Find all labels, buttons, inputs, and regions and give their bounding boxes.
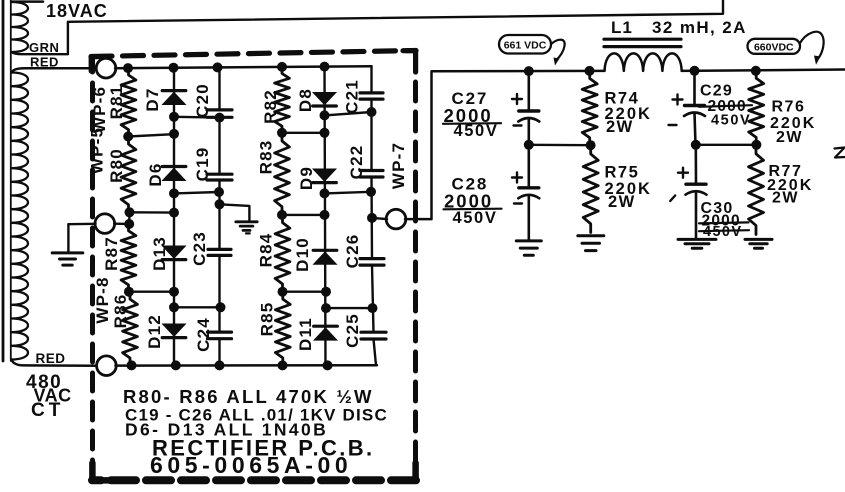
svg-text:GRN: GRN — [29, 40, 59, 55]
svg-text:D8: D8 — [296, 88, 315, 112]
svg-text:C25: C25 — [343, 313, 362, 348]
svg-text:C29: C29 — [700, 83, 733, 100]
svg-text:D6: D6 — [146, 162, 165, 186]
svg-text:2W: 2W — [608, 193, 636, 211]
svg-text:2W: 2W — [776, 129, 803, 146]
svg-text:L1: L1 — [611, 18, 633, 37]
svg-text:WP-7: WP-7 — [389, 142, 408, 189]
svg-text:450V: 450V — [711, 113, 751, 129]
svg-text:R80: R80 — [107, 148, 126, 183]
svg-text:RED: RED — [36, 351, 66, 366]
svg-text:D12: D12 — [145, 314, 164, 349]
svg-text:450V: 450V — [454, 122, 499, 140]
svg-text:R75: R75 — [605, 164, 640, 182]
svg-text:32 mH, 2A: 32 mH, 2A — [652, 18, 747, 37]
svg-text:WP-5: WP-5 — [88, 127, 107, 174]
svg-text:18VAC: 18VAC — [46, 1, 108, 21]
svg-text:D7: D7 — [143, 87, 162, 111]
svg-text:C20: C20 — [193, 83, 212, 118]
svg-text:C19: C19 — [193, 147, 212, 182]
svg-text:C22: C22 — [347, 145, 366, 180]
svg-text:D10: D10 — [293, 237, 312, 272]
svg-text:R81: R81 — [107, 85, 126, 120]
svg-text:R82: R82 — [261, 89, 280, 124]
svg-text:C24: C24 — [194, 317, 213, 352]
svg-text:R86: R86 — [111, 294, 130, 329]
svg-text:R84: R84 — [257, 233, 276, 268]
svg-text:605-0065A-00: 605-0065A-00 — [150, 452, 352, 478]
svg-text:2W: 2W — [606, 118, 634, 136]
svg-text:CT: CT — [31, 400, 64, 421]
svg-text:450V: 450V — [453, 209, 498, 227]
svg-text:R85: R85 — [258, 302, 277, 337]
svg-text:RED: RED — [30, 55, 59, 70]
svg-text:R76: R76 — [772, 99, 806, 116]
svg-text:D13: D13 — [150, 236, 169, 271]
svg-text:WP-8: WP-8 — [93, 276, 112, 323]
svg-text:C21: C21 — [343, 79, 362, 114]
svg-text:R87: R87 — [102, 236, 121, 271]
svg-text:C23: C23 — [190, 231, 209, 266]
svg-text:660VDC: 660VDC — [754, 41, 794, 53]
svg-text:R80- R86 ALL 470K ½W: R80- R86 ALL 470K ½W — [123, 386, 374, 407]
svg-text:D11: D11 — [296, 317, 315, 351]
svg-text:R83: R83 — [257, 140, 276, 175]
svg-text:2W: 2W — [772, 190, 799, 207]
svg-text:C26: C26 — [343, 234, 362, 269]
svg-text:661 VDC: 661 VDC — [504, 40, 547, 52]
svg-text:D9: D9 — [297, 166, 316, 190]
